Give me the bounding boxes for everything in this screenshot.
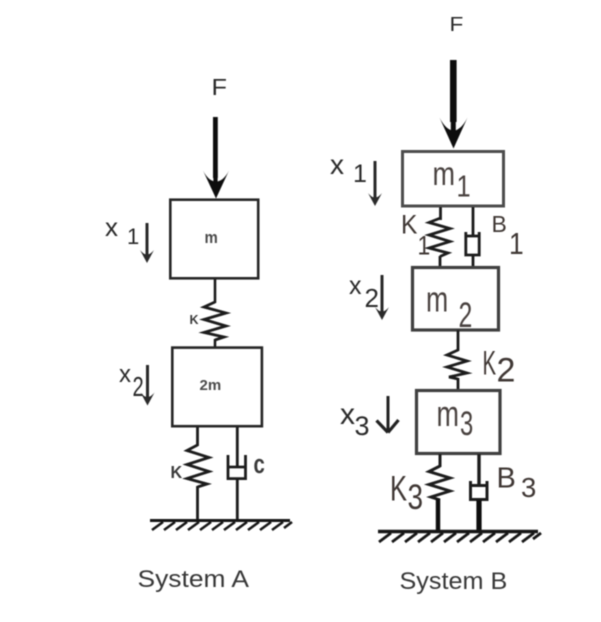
mass m1 box (System B) — [403, 152, 504, 207]
svg-text:m: m — [426, 279, 448, 320]
svg-text:K: K — [390, 470, 408, 509]
spring K lower value label (System A) — [171, 462, 183, 482]
svg-text:System B: System B — [400, 569, 508, 595]
svg-text:K: K — [483, 344, 497, 382]
svg-text:x: x — [105, 212, 118, 242]
wire damper B1 to mass m2 (System B) — [472, 256, 475, 267]
svg-text:1: 1 — [418, 231, 431, 261]
spring K lower (System A) — [187, 445, 209, 487]
svg-text:2: 2 — [459, 297, 473, 335]
wire mass m to spring K (System A) — [214, 279, 217, 303]
svg-text:2: 2 — [365, 283, 379, 313]
svg-text:m: m — [437, 393, 459, 434]
wire mass m1 to spring K1 (System B) — [439, 207, 442, 220]
svg-text:2m: 2m — [200, 377, 222, 394]
wire mass m2 to spring K2 (System B) — [457, 330, 460, 351]
displacement arrow x2 (System A) — [141, 365, 155, 406]
mass m2 label — [426, 279, 448, 320]
svg-text:3: 3 — [521, 472, 536, 503]
svg-text:K: K — [401, 210, 417, 239]
wire damper C to ground (System A) — [236, 479, 239, 520]
spring K3 value label (System B) — [390, 470, 408, 509]
force arrow F (System A) — [203, 117, 229, 199]
wire spring K to mass 2m (System A) — [214, 339, 217, 347]
svg-text:1: 1 — [457, 169, 471, 204]
ground hatching (System B) — [379, 533, 541, 542]
wire spring K3 to ground (System B) — [436, 499, 440, 531]
wire spring K1 to mass m2 (System B) — [439, 256, 442, 267]
displacement arrow x1 (System B) — [368, 161, 382, 206]
svg-text:F: F — [212, 75, 227, 101]
svg-text:3: 3 — [408, 477, 424, 517]
wire damper B3 to ground (System B) — [476, 500, 481, 531]
spring K2 (System B) — [447, 350, 467, 379]
mass m2 box (System B) — [413, 268, 499, 331]
wire mass 2m to spring K lower (System A) — [196, 427, 199, 446]
mass m box (System A) — [170, 200, 258, 279]
svg-text:c: c — [254, 450, 265, 479]
svg-text:3: 3 — [460, 405, 473, 443]
svg-text:K: K — [171, 462, 183, 482]
svg-text:1: 1 — [509, 227, 524, 261]
spring K3 (System B) — [429, 466, 450, 500]
wire mass m1 to damper B1 rod (System B) — [472, 207, 475, 236]
spring K1 value label (System B) — [401, 210, 417, 239]
wire mass m3 to damper B3 rod (System B) — [477, 454, 480, 485]
displacement arrow x2 (System B) — [375, 275, 389, 320]
caption System A — [138, 566, 250, 593]
svg-text:K: K — [190, 313, 199, 327]
svg-text:System A: System A — [138, 566, 250, 593]
svg-text:x: x — [119, 361, 131, 388]
mass m3 box (System B) — [417, 391, 501, 454]
ground hatching (System A) — [152, 522, 292, 530]
caption System B — [400, 569, 508, 595]
wire spring K2 to mass m3 (System B) — [457, 378, 460, 390]
ground line (System B) — [378, 530, 538, 533]
displacement arrow x3 (System B) — [377, 396, 399, 433]
svg-text:1: 1 — [127, 224, 139, 249]
svg-text:x: x — [330, 149, 344, 180]
wire spring K lower to ground (System A) — [196, 486, 199, 520]
mass m value label — [205, 229, 218, 247]
force arrow F (System B) — [440, 60, 468, 149]
damper C cup and piston (System A) — [228, 455, 246, 479]
damper B1 cup and piston (System B) — [466, 232, 479, 255]
svg-text:F: F — [450, 13, 464, 36]
spring K upper (System A) — [204, 302, 226, 340]
damper C value label (System A) — [254, 450, 265, 479]
wire mass m3 to spring K3 (System B) — [439, 454, 442, 467]
damper B3 cup and piston (System B) — [471, 481, 488, 500]
svg-text:x: x — [349, 272, 362, 300]
displacement arrow x1 (System A) — [140, 223, 154, 263]
mass m1 label — [433, 157, 456, 193]
svg-text:x: x — [340, 398, 355, 431]
svg-text:2: 2 — [497, 352, 516, 390]
svg-text:1: 1 — [353, 160, 367, 188]
spring K1 (System B) — [429, 218, 450, 257]
svg-text:3: 3 — [355, 411, 370, 441]
spring K2 value label (System B) — [483, 344, 497, 382]
mass m3 label — [437, 393, 459, 434]
svg-text:m: m — [433, 157, 456, 193]
svg-text:B: B — [497, 463, 516, 495]
ground line (System A) — [150, 519, 290, 522]
svg-text:B: B — [492, 211, 507, 237]
svg-text:2: 2 — [133, 372, 144, 403]
svg-text:m: m — [205, 229, 218, 247]
force label F (System B) — [450, 13, 464, 36]
force label F (System A) — [212, 75, 227, 101]
mass 2m box (System A) — [172, 348, 262, 427]
wire mass 2m to damper C rod (System A) — [236, 427, 239, 467]
